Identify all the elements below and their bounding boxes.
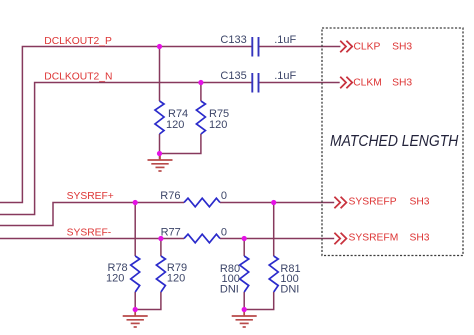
svg-text:R77: R77 bbox=[161, 227, 181, 239]
svg-text:MATCHED LENGTH: MATCHED LENGTH bbox=[330, 133, 459, 150]
wire R81 bottom to ground node bbox=[244, 292, 274, 310]
resistor R79 bbox=[156, 256, 165, 292]
wire R75 bottom to ground node bbox=[160, 134, 201, 154]
svg-text:CLKP: CLKP bbox=[354, 42, 381, 53]
wire R74 branch bbox=[159, 47, 161, 102]
wire R80 bottom to ground node bbox=[243, 292, 245, 316]
wire R78 branch bbox=[134, 203, 136, 257]
node junction R80 R81 ground bbox=[242, 307, 247, 312]
resistor R80 bbox=[240, 256, 249, 292]
port chevron SYSREFM bbox=[334, 233, 346, 244]
svg-text:DCLKOUT2_N: DCLKOUT2_N bbox=[44, 72, 112, 83]
capacitor C133 bbox=[252, 37, 258, 57]
node junction SYSREF+ R78 bbox=[133, 200, 138, 205]
svg-text:0: 0 bbox=[221, 190, 227, 202]
wire R81 branch bbox=[273, 203, 275, 257]
capacitor C135 bbox=[252, 73, 258, 93]
wire C135 to CLKM port bbox=[259, 82, 340, 84]
svg-text:.1uF: .1uF bbox=[274, 34, 296, 46]
svg-text:SH3: SH3 bbox=[410, 233, 430, 244]
resistor R77 bbox=[184, 234, 220, 243]
wire R74 bottom to ground node bbox=[159, 134, 161, 160]
node junction SYSREF- R80 bbox=[242, 236, 247, 241]
wire R79 branch bbox=[160, 239, 162, 257]
svg-text:SYSREFM: SYSREFM bbox=[349, 233, 399, 244]
svg-text:.1uF: .1uF bbox=[274, 70, 296, 82]
resistor R81 bbox=[269, 256, 278, 292]
resistor R78 bbox=[131, 256, 140, 292]
wire C133 to CLKP port bbox=[259, 46, 341, 48]
ground under R74 R75 bbox=[148, 155, 173, 171]
wire R79 bottom to ground node bbox=[135, 292, 161, 310]
node junction P-rail R74 bbox=[157, 44, 162, 49]
wire SYSREF+ elbow from left edge bbox=[0, 203, 184, 226]
node junction R74 R75 ground bbox=[157, 151, 162, 156]
wire DCLKOUT2_P elbow from left edge bbox=[0, 47, 252, 203]
svg-text:120: 120 bbox=[166, 119, 184, 131]
svg-text:SYSREF+: SYSREF+ bbox=[67, 191, 114, 202]
svg-text:DCLKOUT2_P: DCLKOUT2_P bbox=[44, 36, 112, 47]
ground under R78 R79 bbox=[123, 311, 148, 327]
svg-text:120: 120 bbox=[167, 273, 185, 285]
dashed annotation box MATCHED LENGTH bbox=[322, 28, 463, 256]
node junction R78 R79 ground bbox=[133, 307, 138, 312]
node junction SYSREF- R79 bbox=[158, 236, 163, 241]
svg-text:0: 0 bbox=[221, 227, 227, 239]
wire R75 branch bbox=[200, 83, 202, 102]
resistor R76 bbox=[184, 198, 220, 207]
svg-text:SYSREF-: SYSREF- bbox=[67, 228, 112, 239]
svg-text:DNI: DNI bbox=[280, 284, 299, 296]
node junction SYSREFP R81 bbox=[271, 200, 276, 205]
svg-text:CLKM: CLKM bbox=[353, 78, 382, 89]
port chevron SYSREFP bbox=[334, 197, 346, 208]
wire R78 bottom to ground node bbox=[134, 292, 136, 316]
wire DCLKOUT2_N elbow from left edge bbox=[0, 83, 252, 215]
wire R80 branch bbox=[243, 239, 245, 257]
wire R77 to SYSREFM port bbox=[220, 238, 334, 240]
svg-text:C135: C135 bbox=[220, 70, 246, 82]
node junction N-rail R75 bbox=[198, 80, 203, 85]
svg-text:120: 120 bbox=[106, 273, 124, 285]
svg-text:SH3: SH3 bbox=[392, 78, 412, 89]
svg-text:SYSREFP: SYSREFP bbox=[349, 197, 397, 208]
port chevron CLKM bbox=[340, 77, 352, 88]
svg-text:R76: R76 bbox=[160, 190, 180, 202]
ground under R80 R81 bbox=[232, 311, 257, 327]
wire R76 to SYSREFP port bbox=[220, 202, 334, 204]
resistor R75 bbox=[196, 101, 205, 134]
port chevron CLKP bbox=[340, 41, 352, 52]
svg-text:DNI: DNI bbox=[220, 284, 239, 296]
svg-text:SH3: SH3 bbox=[392, 42, 412, 53]
svg-text:120: 120 bbox=[209, 119, 227, 131]
resistor R74 bbox=[155, 101, 164, 134]
svg-text:SH3: SH3 bbox=[410, 197, 430, 208]
wire SYSREF- rail from left edge bbox=[0, 238, 184, 240]
svg-text:C133: C133 bbox=[220, 34, 246, 46]
